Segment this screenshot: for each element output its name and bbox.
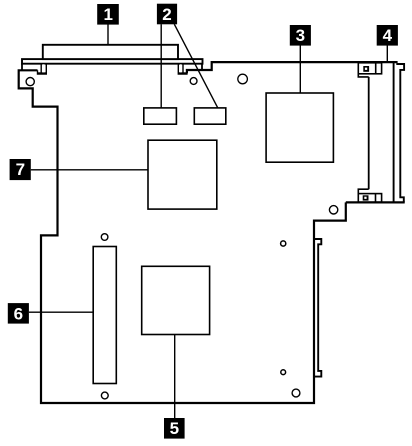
PCMCIA lower bracket divider (375, 194, 377, 203)
docking connector right bracket (315, 239, 321, 377)
callout label 2 (157, 4, 177, 25)
callout label 6 (8, 303, 29, 324)
PCMCIA bottom edge (346, 201, 405, 203)
screw hole above J6 (101, 234, 108, 241)
callout line 2b (174, 24, 218, 108)
callout line 4 (386, 45, 388, 62)
PCMCIA rail outer bracket (396, 64, 404, 202)
connector J1 right foot (178, 64, 187, 74)
screw hole small bottom right (281, 370, 286, 375)
connector J1 top bar (22, 59, 203, 64)
chip U3 (callout 3) (266, 93, 333, 162)
callout label 3 (290, 25, 311, 46)
screw hole bottom right (292, 389, 300, 397)
PCMCIA upper bracket black square (363, 66, 369, 72)
PCMCIA left edge step bottom (358, 189, 368, 193)
memory socket 2a (144, 108, 177, 124)
callout line 1 (107, 24, 109, 44)
callout label 4 (377, 25, 398, 46)
callout line 5 (174, 335, 176, 419)
svg-text:1: 1 (103, 5, 112, 24)
connector J1 left foot (38, 64, 47, 74)
screw hole mid right (281, 241, 286, 246)
callout line 6 (29, 311, 93, 313)
svg-text:4: 4 (383, 26, 393, 45)
svg-text:3: 3 (296, 26, 305, 45)
chip U5 (callout 5) (142, 266, 210, 334)
callout line 7 (31, 169, 148, 171)
memory socket 2b (194, 108, 226, 124)
board outline left/bottom/right (19, 70, 346, 403)
PCMCIA lower bracket black square (363, 195, 369, 200)
svg-text:6: 6 (14, 305, 23, 324)
connector J6 (callout 6) (93, 247, 116, 384)
callout line 2a (160, 24, 162, 108)
screw hole top middle (238, 74, 248, 84)
connector J1 bar left leg (21, 64, 23, 71)
callout label 7 (10, 159, 31, 180)
screw hole top middle left (190, 78, 197, 85)
board top edge right section (187, 62, 398, 73)
screw hole wing (26, 78, 34, 86)
connector J1 bar right leg (201, 64, 203, 71)
callout label 5 (164, 418, 185, 439)
PCMCIA left edge step top (358, 74, 368, 77)
chip U7 (callout 7) (148, 140, 217, 209)
connector J1 big rectangle (43, 45, 178, 59)
callout label 1 (97, 4, 119, 25)
screw hole below J6 (101, 392, 108, 399)
PCMCIA slot lower bracket box (358, 194, 381, 203)
PCMCIA slot upper bracket box (358, 63, 381, 74)
svg-text:7: 7 (16, 160, 25, 179)
PCMCIA rail inner line (393, 62, 395, 202)
svg-text:2: 2 (162, 5, 171, 24)
callout line 3 (299, 45, 301, 93)
screw hole right mid (329, 206, 337, 214)
PCMCIA upper bracket divider (375, 63, 377, 74)
svg-text:5: 5 (170, 419, 179, 438)
PCMCIA connector left edge (368, 77, 370, 189)
